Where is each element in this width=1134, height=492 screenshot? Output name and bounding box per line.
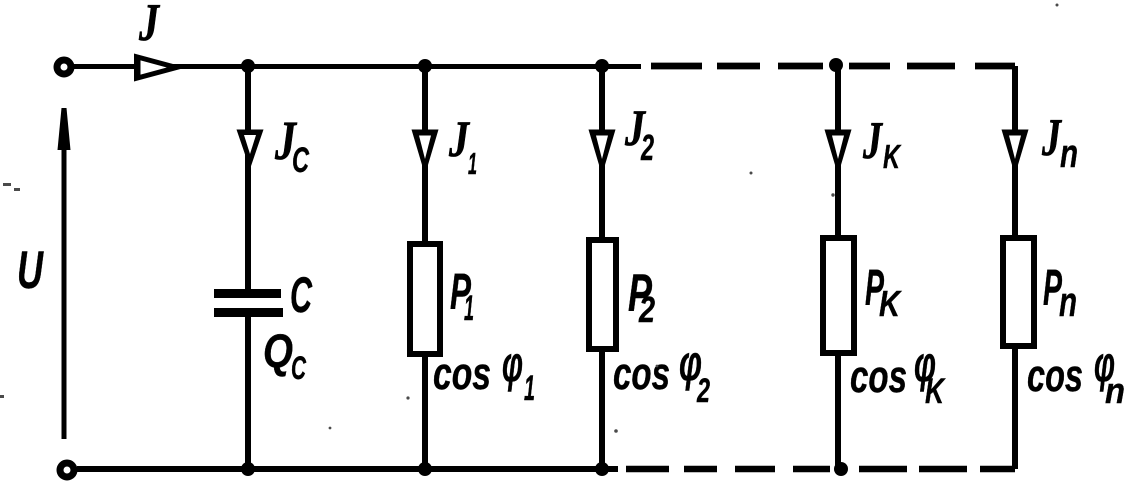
svg-text:cos: cos — [850, 351, 907, 402]
resistor P2 — [589, 240, 616, 349]
svg-text:cos: cos — [1027, 350, 1083, 401]
wire top bus solid — [74, 64, 641, 69]
svg-text:K: K — [883, 138, 902, 175]
arrow JC — [237, 130, 264, 170]
svg-text:K: K — [925, 372, 946, 411]
arrow J2 — [589, 130, 616, 176]
wire branch 2 vertical — [599, 66, 605, 240]
svg-text:J: J — [1041, 109, 1062, 167]
svg-text:J: J — [448, 112, 470, 168]
node bottom C — [241, 462, 255, 476]
svg-text:n: n — [1059, 278, 1077, 325]
svg-text:n: n — [1105, 370, 1125, 411]
svg-text:K: K — [879, 283, 902, 324]
svg-text:φ: φ — [502, 336, 523, 392]
svg-text:1: 1 — [464, 289, 474, 328]
resistor Pn — [1003, 238, 1034, 346]
wire branch 1 vertical — [422, 66, 428, 244]
arrow J1 — [412, 130, 439, 176]
arrow JK — [825, 130, 852, 176]
svg-text:n: n — [1060, 132, 1078, 176]
arrow Jn — [1002, 130, 1029, 176]
wire branch n vertical with top corner — [1012, 66, 1018, 238]
svg-text:cos: cos — [433, 348, 491, 399]
capacitor C plate top — [214, 289, 281, 298]
wire bottom bus dashed — [626, 466, 1015, 473]
svg-text:C: C — [291, 350, 307, 386]
node bottom K — [834, 462, 848, 476]
wire top bus dashed — [651, 63, 1015, 70]
svg-text:cos: cos — [613, 348, 670, 399]
node top K — [829, 58, 843, 72]
terminal top-left — [57, 60, 71, 74]
svg-text:2: 2 — [638, 289, 655, 330]
svg-text:C: C — [292, 141, 309, 180]
resistor PK — [823, 238, 854, 353]
svg-text:1: 1 — [524, 369, 535, 408]
svg-text:J: J — [862, 112, 883, 170]
svg-text:J: J — [138, 0, 160, 52]
node top 1 — [418, 59, 432, 73]
capacitor C plate bottom — [214, 308, 283, 317]
svg-text:2: 2 — [640, 127, 654, 168]
wire branch C vertical — [245, 66, 251, 289]
wire branch K vertical — [835, 65, 841, 238]
svg-text:1: 1 — [468, 146, 477, 181]
node bottom 1 — [418, 462, 432, 476]
resistor P1 — [410, 244, 440, 354]
voltage arrow U — [62, 145, 67, 439]
arrow J on top bus — [134, 54, 186, 82]
svg-text:2: 2 — [696, 372, 710, 410]
svg-text:Q: Q — [263, 324, 293, 377]
svg-text:U: U — [17, 241, 44, 300]
terminal bottom-left — [60, 463, 74, 477]
node bottom 2 — [595, 462, 609, 476]
node top 2 — [595, 59, 609, 73]
svg-text:C: C — [290, 267, 313, 323]
node top C — [241, 59, 255, 73]
wire bottom bus solid — [77, 466, 618, 472]
